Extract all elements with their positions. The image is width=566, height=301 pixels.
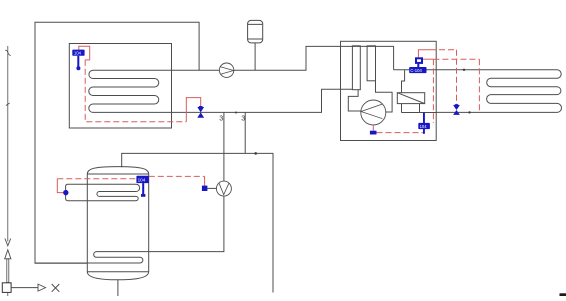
compressor CP1: [361, 100, 386, 125]
UCS X label: [52, 284, 60, 292]
heating coil HC1 (left radiator serpentine): [89, 70, 159, 112]
wire red dashed to tank controller K2: [57, 178, 136, 180]
corner mark bottom right: [560, 293, 566, 296]
leader tick: [6, 103, 10, 106]
wire pump P2 sensor stub: [207, 187, 216, 189]
pump P2 riser and tank lower coil HC4: [35, 196, 224, 263]
wire condenser return pipe: [402, 112, 437, 114]
plate heat exchanger HX1 (evaporator): [341, 46, 394, 69]
heating coil HC2 (right radiator serpentine): [436, 70, 561, 113]
wire condenser supply pipe: [394, 69, 437, 71]
UCS Y axis shaft: [7, 259, 9, 283]
svg-text:3: 3: [219, 116, 223, 123]
pump sensor S3: [202, 186, 208, 191]
wire red sensor S1 top rail: [418, 50, 430, 57]
box B1 around coil HC1: [69, 44, 171, 129]
wire red dashed tank controller to pump sensor: [149, 175, 205, 177]
wire red drop to pump sensor: [204, 176, 206, 185]
wire red dashed drop right: [478, 59, 480, 112]
junction dot on coil HC2 return: [468, 111, 470, 113]
wire red dashed drop left coil: [85, 60, 186, 122]
wire red around controller K1: [79, 46, 90, 60]
controller K4: [418, 123, 430, 129]
wire red sensor S1 right rail: [422, 58, 434, 60]
svg-text:104: 104: [420, 124, 428, 129]
leader arrowhead down: [5, 239, 11, 246]
svg-text:C-104: C-104: [410, 68, 422, 73]
valve V2: [453, 105, 460, 115]
pump P1: [219, 63, 233, 77]
wire condenser bottom connections: [402, 104, 420, 113]
heat pump box B2: [341, 41, 437, 140]
leader squiggle: [5, 50, 11, 56]
stem S1 to controller K3: [417, 64, 419, 68]
wire red dashed drop to valve V2: [456, 50, 458, 106]
wire red from heater sensor: [57, 179, 63, 193]
plate heat exchanger HX2: [367, 46, 375, 81]
node riser N3b below pipe: [244, 113, 246, 154]
junction dot on return pipe: [235, 112, 237, 114]
controller K3: [409, 67, 426, 73]
junction dot on tank header: [254, 152, 257, 155]
wire refrigerant discharge line: [348, 90, 361, 111]
controller K1: [72, 50, 84, 56]
condenser HX3 (rectangle with diagonal): [397, 93, 424, 104]
wire outer heating return loop: [35, 22, 199, 263]
heater flange loop F1: [66, 184, 88, 201]
wire below origin: [7, 292, 9, 296]
UCS Y axis arrowhead: [5, 250, 11, 259]
wire condenser feed drop: [402, 70, 405, 93]
svg-text:104: 104: [138, 178, 146, 183]
sensor bulb dot: [76, 66, 80, 70]
UCS X axis shaft: [11, 287, 38, 289]
junction dot on coil HC2 supply: [463, 69, 465, 71]
sensor S1 (hollow box): [416, 58, 422, 63]
wire red riser to valve V1: [186, 98, 200, 122]
wire red dashed compressor sensor to K4: [377, 132, 424, 134]
expansion vessel EV1: [248, 20, 263, 43]
pump P2: [216, 181, 231, 196]
leader line left: [7, 46, 9, 242]
node riser N3a below pipe: [223, 113, 225, 182]
storage tank T1 shell: [87, 167, 148, 280]
svg-text:3: 3: [241, 116, 245, 123]
tank sensor tip: [141, 194, 145, 197]
heater sensor dot: [63, 190, 68, 195]
wire tank drain pipe: [117, 280, 119, 296]
svg-text:104: 104: [74, 51, 82, 56]
tank controller K2: [136, 176, 148, 183]
wire tank top header: [122, 153, 273, 292]
UCS origin square: [2, 283, 11, 293]
wire refrigerant suction line: [376, 81, 393, 112]
tank sensor stem: [142, 183, 144, 194]
UCS X axis arrowhead: [38, 284, 46, 291]
wire red dashed drop inner: [432, 59, 434, 123]
heating coil HC3 (tank upper coil): [87, 184, 139, 201]
wire return pipe from coil HC1 through valve V1 to heat pump: [93, 89, 352, 112]
sensor stem K4: [423, 113, 425, 134]
wire flow pipe from coil HC1 to heat pump: [93, 46, 341, 70]
sensor stem K1: [77, 56, 79, 67]
wire red compressor sensor drop: [372, 125, 374, 131]
compressor sensor S2: [370, 131, 377, 135]
valve V1: [197, 107, 204, 118]
